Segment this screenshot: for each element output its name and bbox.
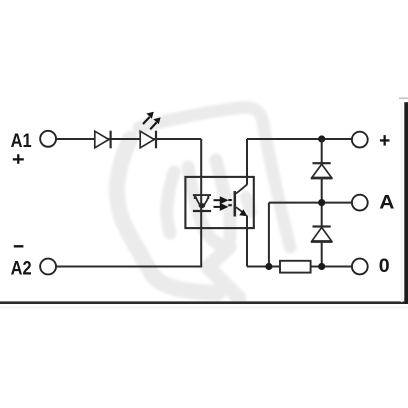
frame top-right serif xyxy=(399,97,408,99)
junction A xyxy=(318,199,325,206)
wire diode chain vertical xyxy=(321,139,323,267)
wire A rail xyxy=(269,202,351,204)
label minus left xyxy=(14,245,24,247)
svg-text:A2: A2 xyxy=(11,257,32,279)
junction bottom-right xyxy=(318,263,325,270)
diode D1 xyxy=(95,131,112,149)
terminal 0 xyxy=(352,259,368,275)
LED D2 arrows xyxy=(143,112,161,130)
terminal A1 xyxy=(40,131,56,147)
diode D4 xyxy=(311,225,333,243)
wire A1 rail xyxy=(57,138,202,140)
diode D3 xyxy=(311,162,333,179)
label plus left xyxy=(13,154,24,164)
opto LED xyxy=(193,195,211,212)
phototransistor Q1 xyxy=(234,185,248,217)
wire A branch down xyxy=(268,203,270,267)
terminal A xyxy=(352,195,368,211)
wire emitter down xyxy=(246,216,248,267)
svg-text:0: 0 xyxy=(379,255,390,277)
wire bottom-right rail xyxy=(247,266,351,268)
svg-text:A1: A1 xyxy=(11,130,32,152)
resistor R1 xyxy=(280,261,311,273)
junction bottom-left xyxy=(265,263,272,270)
terminal plus xyxy=(352,132,368,148)
junction top xyxy=(318,135,325,142)
LED D2 xyxy=(140,131,157,149)
svg-text:A: A xyxy=(379,192,394,214)
wire collector up xyxy=(246,139,248,185)
frame bottom line xyxy=(0,301,408,304)
wire LED cathode drop xyxy=(200,139,202,267)
frame right bar xyxy=(404,102,408,304)
label plus right xyxy=(380,135,390,146)
optocoupler box U1 xyxy=(185,177,253,228)
terminal A2 xyxy=(40,259,56,275)
wire A2 rail xyxy=(57,266,203,268)
frame ghost artifacts xyxy=(0,307,408,309)
wire plus rail xyxy=(247,138,351,140)
opto coupling arrows xyxy=(214,196,232,211)
